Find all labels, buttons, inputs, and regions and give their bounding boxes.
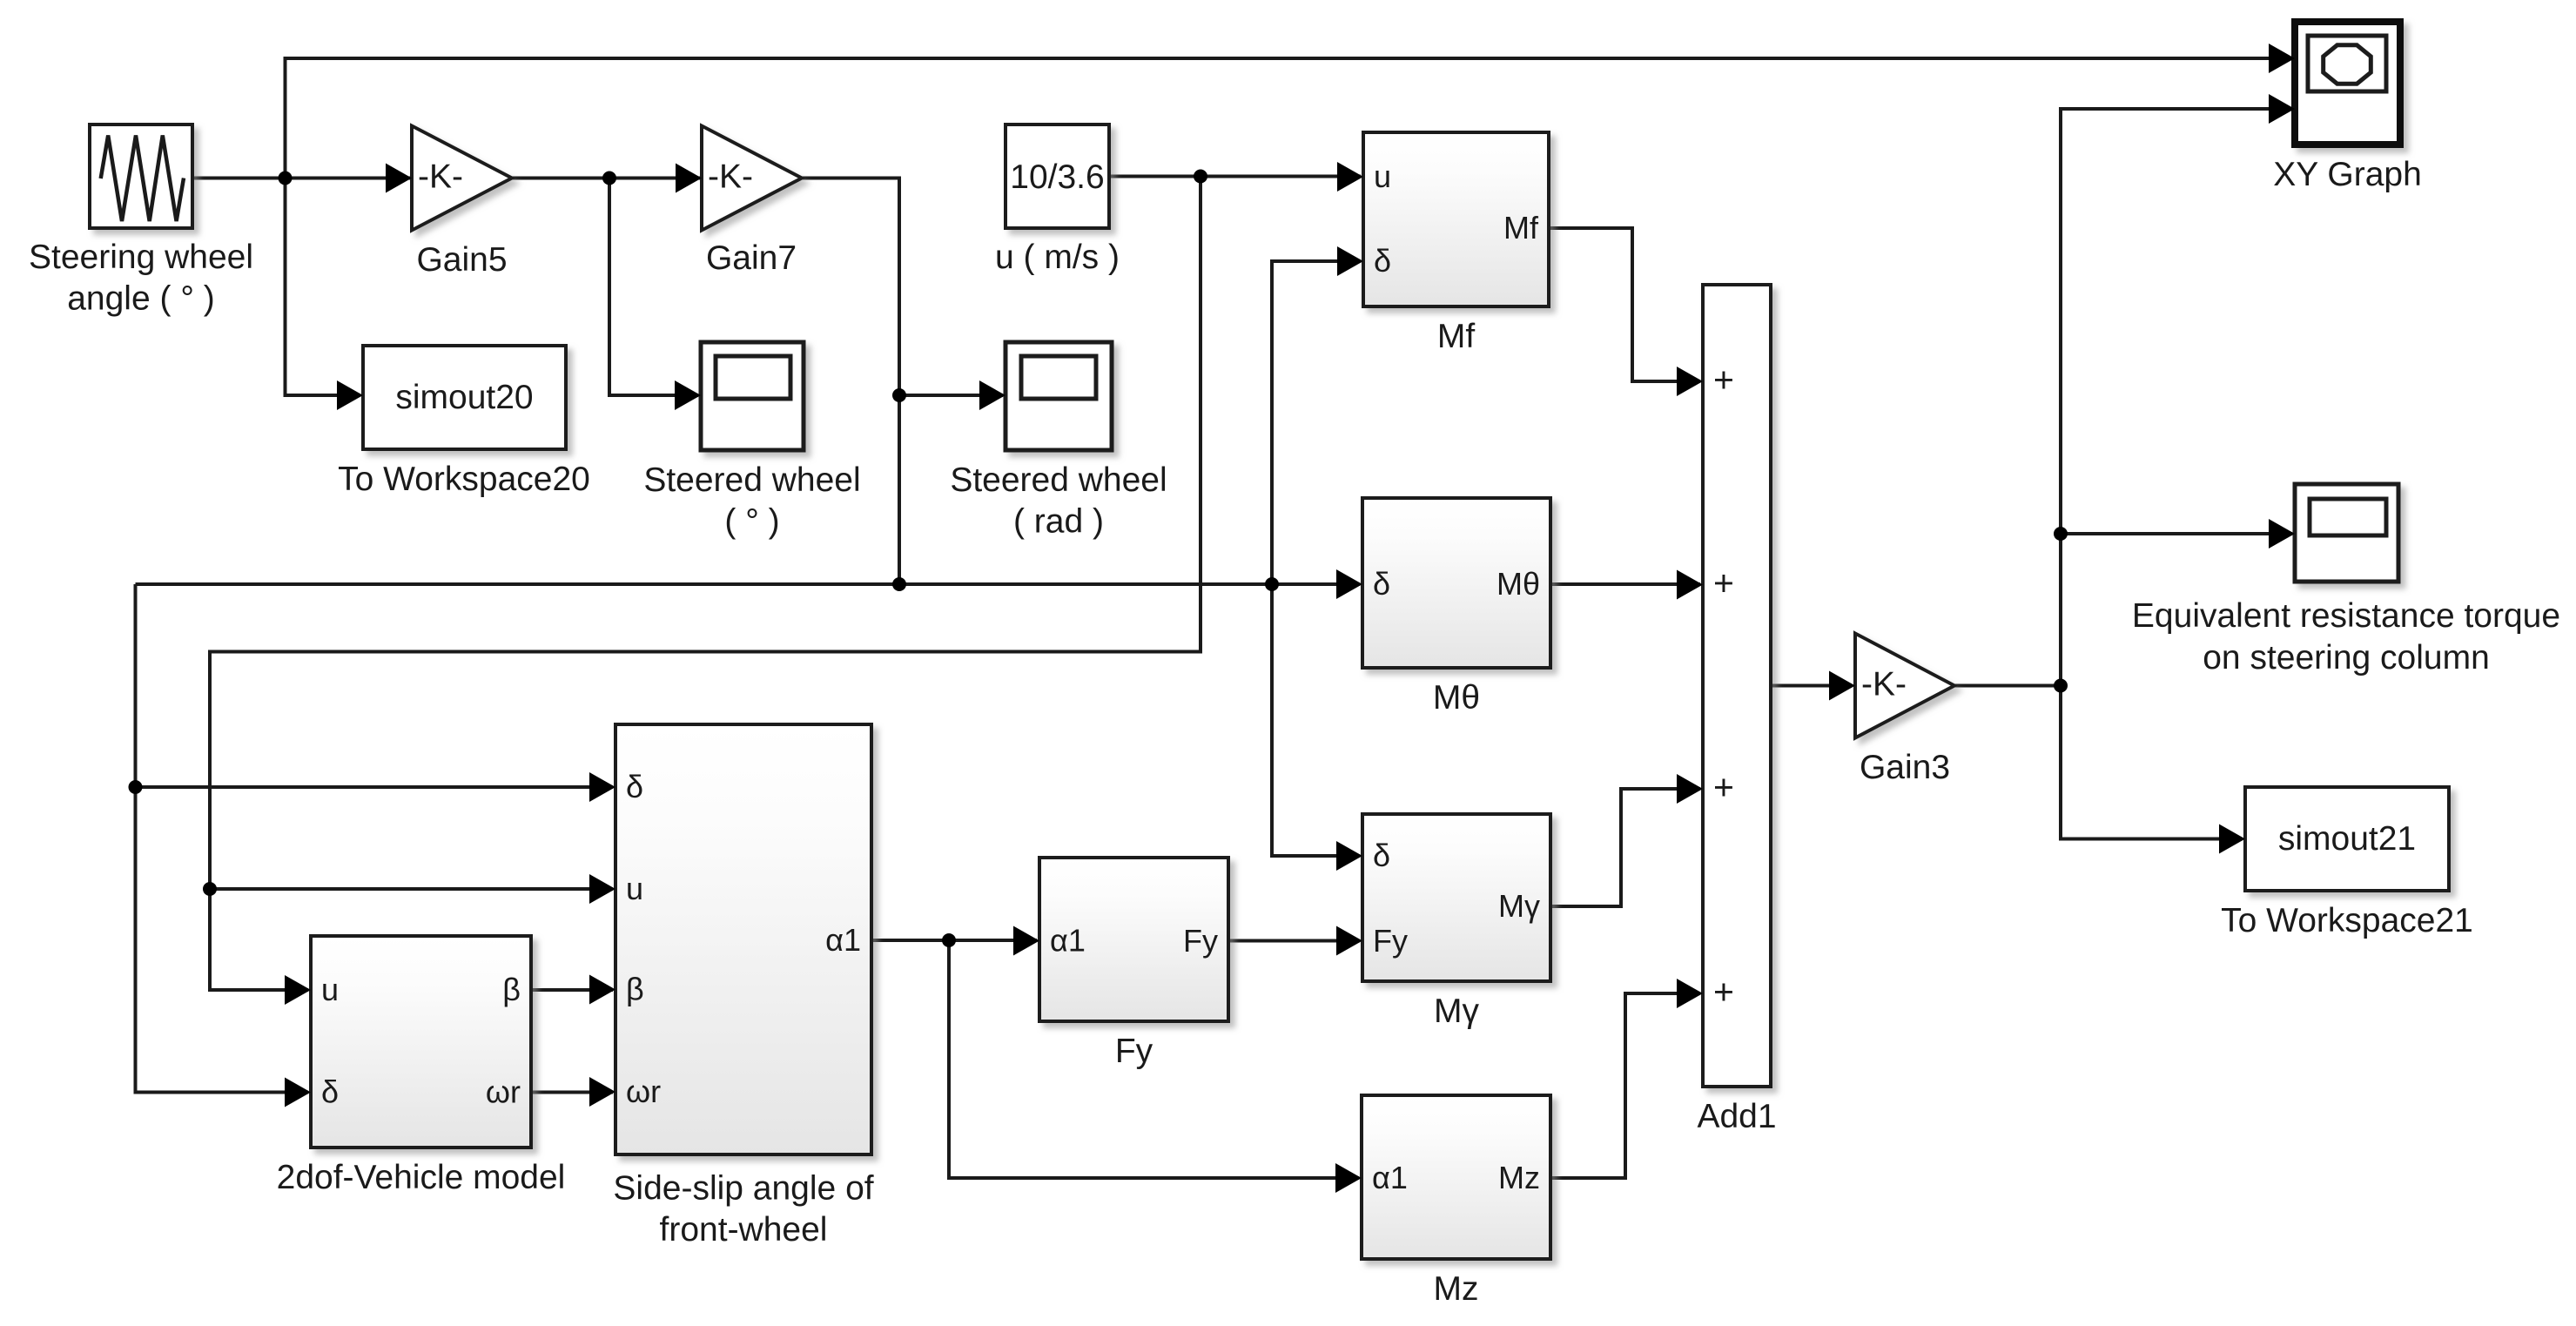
- svg-text:-K-: -K-: [418, 158, 463, 196]
- svg-text:+: +: [1713, 767, 1734, 807]
- svg-text:u: u: [1374, 158, 1391, 194]
- svg-text:ωr: ωr: [626, 1074, 661, 1109]
- svg-text:To Workspace20: To Workspace20: [338, 461, 590, 498]
- svg-text:Steered wheel: Steered wheel: [950, 461, 1167, 499]
- svg-text:Fy: Fy: [1183, 923, 1218, 959]
- svg-text:simout21: simout21: [2278, 820, 2416, 858]
- svg-text:Mγ: Mγ: [1434, 993, 1479, 1030]
- svg-text:Mz: Mz: [1434, 1270, 1479, 1308]
- svg-text:simout20: simout20: [395, 379, 533, 416]
- svg-text:δ: δ: [626, 769, 643, 804]
- svg-text:Mz: Mz: [1498, 1160, 1540, 1195]
- svg-text:β: β: [502, 972, 521, 1007]
- svg-text:Fy: Fy: [1373, 923, 1408, 959]
- svg-text:u: u: [626, 871, 643, 906]
- svg-text:Steering wheel: Steering wheel: [29, 239, 253, 276]
- svg-text:δ: δ: [321, 1074, 339, 1110]
- svg-text:on steering column: on steering column: [2203, 639, 2490, 676]
- svg-text:+: +: [1713, 360, 1734, 400]
- svg-text:-K-: -K-: [1861, 666, 1907, 703]
- svg-text:10/3.6: 10/3.6: [1010, 158, 1104, 196]
- svg-text:δ: δ: [1374, 243, 1391, 279]
- svg-text:front-wheel: front-wheel: [660, 1211, 828, 1249]
- svg-text:Fy: Fy: [1115, 1033, 1153, 1070]
- svg-text:u ( m/s ): u ( m/s ): [995, 239, 1120, 276]
- svg-text:( ° ): ( ° ): [724, 503, 779, 541]
- svg-text:β: β: [626, 972, 644, 1007]
- svg-text:u: u: [321, 972, 339, 1007]
- svg-text:Gain5: Gain5: [416, 241, 507, 279]
- svg-text:Mf: Mf: [1437, 318, 1475, 355]
- svg-text:Mθ: Mθ: [1433, 679, 1480, 717]
- svg-text:2dof-Vehicle model: 2dof-Vehicle model: [277, 1159, 566, 1196]
- svg-text:δ: δ: [1373, 838, 1390, 873]
- svg-text:α1: α1: [1372, 1160, 1408, 1195]
- svg-text:-K-: -K-: [708, 158, 753, 196]
- svg-text:Gain7: Gain7: [706, 239, 797, 277]
- svg-text:ωr: ωr: [486, 1074, 521, 1110]
- svg-text:α1: α1: [1050, 923, 1086, 959]
- svg-text:Mf: Mf: [1503, 210, 1539, 246]
- svg-text:Equivalent resistance torque: Equivalent resistance torque: [2132, 597, 2560, 635]
- svg-text:δ: δ: [1373, 566, 1390, 602]
- svg-text:+: +: [1713, 972, 1734, 1012]
- svg-text:Add1: Add1: [1697, 1098, 1776, 1135]
- svg-text:Gain3: Gain3: [1860, 749, 1950, 786]
- svg-text:Side-slip angle of: Side-slip angle of: [613, 1170, 873, 1208]
- svg-text:( rad ): ( rad ): [1013, 503, 1104, 541]
- svg-text:Mθ: Mθ: [1497, 566, 1540, 602]
- svg-text:+: +: [1713, 563, 1734, 603]
- svg-text:α1: α1: [825, 922, 861, 958]
- svg-text:Steered wheel: Steered wheel: [643, 461, 860, 499]
- svg-text:To Workspace21: To Workspace21: [2221, 902, 2473, 939]
- svg-text:angle ( ° ): angle ( ° ): [67, 280, 215, 318]
- svg-text:XY Graph: XY Graph: [2273, 156, 2422, 193]
- svg-text:Mγ: Mγ: [1498, 888, 1540, 924]
